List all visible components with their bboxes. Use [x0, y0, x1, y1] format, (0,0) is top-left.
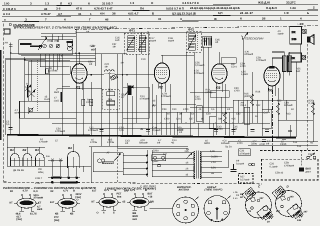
junction dot plate wire c [126, 74, 128, 76]
svg-text:2Ж: 2Ж [291, 57, 295, 60]
coil B2 stub [26, 147, 28, 153]
header rule line 2 [2, 9, 318, 12]
svg-text:ФТ1: ФТ1 [129, 29, 135, 33]
svg-text:дист: дист [306, 171, 312, 174]
svg-text:А 3 4: А 3 4 [3, 12, 10, 16]
coil B1 [11, 154, 20, 166]
svg-text:4700: 4700 [217, 128, 223, 131]
vertical wire x152 [151, 84, 153, 135]
tube2 plate wire y55 [161, 54, 194, 56]
vertical wire x24.8 [24, 57, 26, 118]
wire stubs above tuner [41, 33, 76, 35]
svg-text:В3: В3 [35, 148, 39, 152]
svg-text:4Ф: 4Ф [121, 62, 124, 65]
svg-text:СЗ0Ф: СЗ0Ф [280, 143, 287, 146]
svg-text:65: 65 [123, 200, 126, 203]
svg-text:4Л: 4Л [186, 162, 189, 165]
trimmer cap T2 [49, 44, 52, 47]
vertical wire x91 [90, 82, 92, 135]
svg-text:4б: 4б [291, 108, 294, 111]
svg-text:0,016 0,7 Н П: 0,016 0,7 Н П [166, 6, 184, 10]
svg-text:4700мкФ: 4700мкФ [88, 129, 98, 132]
svg-text:С19: С19 [141, 58, 146, 61]
capacitor C2 left [9, 128, 13, 130]
junction dots y123 rail [160, 122, 244, 124]
transformer area labels [153, 142, 314, 182]
svg-text:В: В [115, 189, 117, 192]
svg-text:З 4 б 6.7 б 8: З 4 б 6.7 б 8 [182, 1, 199, 5]
capacitor C44 box [209, 117, 216, 129]
vertical wire x57 [56, 54, 58, 70]
switch contact x marks [51, 159, 62, 162]
svg-text:Тр: Тр [186, 148, 189, 151]
svg-text:(430Ω): (430Ω) [244, 95, 252, 98]
loudspeaker symbol [307, 34, 314, 45]
vertical wire x109 [108, 72, 110, 146]
svg-text:6х8: 6х8 [133, 218, 138, 221]
vertical wire x40 [39, 54, 41, 67]
grid resistor dashed box [102, 89, 119, 109]
IF transformer FT1 windings [127, 35, 147, 52]
power switch VKL [307, 153, 316, 159]
svg-text:4 76 47: 4 76 47 [41, 12, 51, 16]
wire rail y88.5 [57, 88, 102, 90]
svg-text:4б: 4б [186, 174, 189, 177]
svg-text:4,7V: 4,7V [63, 190, 69, 193]
svg-text:О: О [151, 1, 154, 5]
svg-text:пФ: пФ [203, 40, 206, 43]
IF transformer FT2 box [187, 32, 202, 53]
svg-text:4: 4 [64, 18, 66, 22]
tube1 pin wire y86 [62, 85, 70, 87]
svg-text:МкФ: МкФ [54, 91, 59, 94]
svg-text:2ЛВ: 2ЛВ [292, 38, 297, 41]
svg-text:Лб: Лб [267, 89, 273, 93]
svg-text:297: 297 [304, 211, 309, 214]
svg-text:24 .43. 27: 24 .43. 27 [240, 11, 253, 15]
svg-text:ЗВ: ЗВ [140, 128, 143, 131]
svg-text:1 Ю: 1 Ю [4, 2, 9, 6]
tube socket diagram 2 [55, 194, 80, 211]
vertical wire x283 [282, 72, 284, 100]
svg-text:Ж: Ж [213, 17, 217, 21]
speaker connector hatched block lower [302, 55, 306, 60]
junction dots on bus [10, 134, 279, 138]
svg-text:4б: 4б [255, 115, 258, 118]
svg-text:47 б: 47 б [76, 7, 82, 11]
coil B3 stub [39, 147, 41, 153]
socket1 labels [10, 190, 44, 222]
chassis D inner parts [281, 196, 298, 210]
electrolytic capacitor dark bar [128, 86, 132, 95]
svg-text:4,7б: 4,7б [90, 45, 95, 48]
power transformer primary winding [194, 151, 195, 178]
rectifier capacitor [231, 164, 237, 172]
wire below-bus rail y141 right [228, 140, 318, 143]
svg-text:4бГ: 4бГ [90, 48, 96, 51]
vertical lead x213 [212, 123, 214, 136]
svg-text:277: 277 [276, 210, 281, 213]
tube socket diagram 1 [14, 194, 39, 211]
vertical wire x5.5 [5, 58, 7, 135]
chassis view C outline [246, 192, 272, 218]
wire rail y55.7 [21, 55, 95, 57]
vertical wire x132 [131, 96, 133, 135]
svg-text:61,7б: 61,7б [30, 212, 37, 215]
svg-text:К2: К2 [51, 190, 55, 193]
svg-text:4Ф: 4Ф [157, 142, 160, 145]
svg-text:4б: 4б [201, 118, 204, 121]
svg-text:1: 1 [90, 12, 92, 16]
svg-text:Др: Др [153, 104, 157, 107]
socket4 labels [123, 189, 154, 221]
svg-text:П4: П4 [140, 6, 144, 10]
svg-text:2Л: 2Л [186, 167, 189, 170]
svg-text:4,01 4,7: 4,01 4,7 [128, 12, 139, 16]
svg-text:R2З: R2З [286, 113, 291, 116]
svg-text:С47: С47 [264, 112, 269, 115]
svg-text:6кв: 6кв [117, 195, 122, 198]
svg-text:КТ: КТ [38, 202, 42, 205]
svg-text:Л3: Л3 [215, 86, 220, 90]
vertical lead x229 [228, 112, 230, 136]
svg-text:4,КВΩ: 4,КВΩ [241, 73, 248, 76]
UKV tuner box [19, 40, 73, 55]
vertical lead x257 [256, 100, 258, 123]
wire rail y118 [20, 117, 76, 119]
svg-text:Ь: Ь [307, 11, 309, 15]
svg-text:600мкФ: 600мкФ [245, 53, 254, 56]
svg-text:240: 240 [290, 196, 295, 199]
coil row connecting wires [7, 147, 91, 183]
tube socket diagram 4 [127, 193, 152, 210]
tube L3 envelope [212, 64, 227, 84]
svg-text:2б: 2б [262, 17, 266, 21]
svg-text:4700: 4700 [164, 118, 170, 121]
vertical wire x268 [267, 88, 269, 112]
svg-text:Пр 2А: Пр 2А [225, 146, 232, 149]
svg-text:Л2: Л2 [158, 86, 163, 90]
resistor R4 [90, 99, 93, 106]
svg-text:Л1: Л1 [75, 85, 80, 89]
speaker connector hatched block upper [302, 29, 307, 34]
svg-text:4,7: 4,7 [58, 12, 62, 16]
svg-text:340: 340 [233, 128, 238, 131]
svg-text:11кΩ: 11кΩ [44, 98, 50, 101]
svg-text:б: б [113, 211, 115, 214]
wire rail y107.5 [190, 107, 233, 109]
svg-text:(4б): (4б) [47, 40, 51, 43]
svg-text:4700: 4700 [240, 65, 246, 68]
svg-text:СЗ7: СЗ7 [189, 118, 194, 121]
tube L1 electrodes [74, 53, 86, 90]
svg-text:НАЦ: НАЦ [38, 171, 43, 174]
switch arrow AT [114, 153, 121, 162]
svg-text:4Ф: 4Ф [105, 65, 108, 68]
power rail y145.5 [248, 145, 318, 147]
svg-text:О: О [77, 199, 79, 202]
svg-text:2Ф: 2Ф [236, 194, 239, 197]
resistor R1 [45, 69, 48, 74]
vertical wire x136.6 [136, 54, 138, 123]
variable capacitor C1v arrows [25, 85, 36, 98]
svg-text:4б: 4б [105, 17, 109, 21]
svg-text:ВЯ: ВЯ [150, 200, 154, 203]
trimmer tick 1 [51, 40, 53, 41]
svg-text:617: 617 [92, 190, 97, 193]
svg-text:4,7V: 4,7V [130, 189, 136, 192]
power transformer core [197, 150, 199, 178]
arrow across electrolytic [125, 86, 134, 96]
svg-text:С: С [258, 185, 261, 189]
oscillator coil core [105, 72, 115, 74]
svg-text:С51: С51 [308, 153, 313, 156]
capacitor C47 box [262, 109, 271, 128]
svg-text:0,1мкФ: 0,1мкФ [270, 165, 278, 168]
coil middle taps [15, 157, 74, 168]
mains switch black block [299, 167, 304, 171]
svg-text:4 96 Г: 4 96 Г [35, 182, 43, 185]
svg-text:СЗ2: СЗ2 [236, 113, 241, 116]
resistor box R22 [244, 107, 250, 124]
svg-text:4,7V: 4,7V [23, 190, 29, 193]
vertical wire x148 [147, 32, 149, 135]
chassis C pin labels [240, 193, 270, 224]
coil B1 stub [14, 147, 16, 153]
svg-text:297: 297 [260, 197, 265, 200]
svg-text:мкФ: мкФ [15, 111, 20, 114]
volume potentiometer circles [98, 159, 105, 163]
svg-text:4700: 4700 [183, 108, 189, 111]
svg-text:мкФ: мкФ [37, 208, 43, 211]
svg-text:СЗ0: СЗ0 [206, 113, 211, 116]
capacitor C30 on rail [262, 140, 266, 142]
antenna connector circle [173, 197, 199, 223]
svg-text:Збк: Збк [108, 98, 113, 101]
svg-text:4Ф: 4Ф [113, 45, 116, 48]
svg-text:4зв: 4зв [46, 155, 50, 158]
vertical lead x198 [197, 123, 199, 136]
svg-text:ЗЗ0м: ЗЗ0м [251, 142, 257, 145]
capacitor C46 on bus [251, 130, 255, 132]
chassis D hatched lug top-left [275, 187, 285, 196]
svg-text:0,01: 0,01 [176, 118, 181, 121]
vertical wire x28 [27, 62, 29, 102]
svg-text:2: 2 [313, 6, 315, 10]
potentiometer hatched track [102, 162, 113, 164]
tube L1 envelope [72, 64, 87, 84]
chassis C hatched lug top-left [245, 189, 255, 198]
vertical wire x238 [237, 100, 239, 123]
schematic left dashed border [3, 24, 5, 183]
small dashed box R27 [239, 174, 254, 184]
vertical wire x313 [312, 100, 314, 142]
svg-text:ВАР: ВАР [124, 190, 130, 193]
capacitor C43 on bus [214, 130, 218, 132]
wires volume block to transformer column [93, 146, 152, 183]
svg-text:АБ: АБ [310, 142, 314, 145]
svg-text:З1: З1 [78, 12, 82, 16]
svg-text:4Ф: 4Ф [125, 142, 128, 145]
svg-text:АНТЕНИ: АНТЕНИ [178, 188, 190, 191]
svg-text:Зб: Зб [112, 12, 116, 16]
vertical wire x45.9 [45, 54, 47, 74]
dial cord row 2 [48, 181, 80, 184]
wire rail y104.5 [161, 104, 196, 106]
vertical wire x186 [185, 52, 187, 112]
IF transformer FT1 box [124, 33, 149, 54]
chassis C inner parts [251, 197, 268, 211]
svg-text:4700мкФ: 4700мкФ [194, 72, 204, 75]
svg-text:СЗ9: СЗ9 [162, 108, 167, 111]
svg-text:ДВ СВ КВ: ДВ СВ КВ [13, 169, 24, 172]
svg-text:0,1мкФ: 0,1мкФ [236, 162, 244, 165]
svg-text:340мкФ: 340мкФ [221, 142, 230, 145]
svg-text:б: б [240, 17, 242, 21]
telescopic antenna [242, 32, 248, 40]
wire rail y60 [25, 59, 70, 61]
svg-text:АН: АН [5, 42, 9, 45]
svg-text:В2: В2 [23, 148, 27, 152]
vertical lead x156 [155, 95, 157, 135]
svg-text:4Ф: 4Ф [266, 143, 269, 146]
header rule line 4 [2, 21, 318, 22]
oscillator coil L-osc [105, 70, 115, 72]
capacitor C36 on bus [100, 130, 104, 132]
svg-text:0,5мкФ: 0,5мкФ [153, 129, 161, 132]
svg-text:С 3 Б И 6: С 3 Б И 6 [3, 7, 16, 11]
header revision-table text row D [4, 17, 302, 22]
svg-text:+ 3в: + 3в [233, 191, 238, 194]
vertical wire x101 [100, 54, 102, 146]
svg-text:4700м: 4700м [90, 141, 97, 144]
tube L2 electrodes [156, 55, 168, 92]
svg-text:D: D [287, 185, 290, 189]
vertical wire x203 [202, 47, 204, 123]
plate wire tube1 to coil [87, 74, 104, 76]
power connector circles [249, 163, 255, 166]
svg-text:4пФ: 4пФ [115, 39, 120, 42]
vertical lead x166 [165, 112, 167, 135]
wire rail y100 right [233, 99, 296, 101]
transformer winding labels [185, 150, 190, 177]
vertical wire x225 [224, 84, 226, 135]
chassis D hatched lug bottom-right [293, 210, 303, 219]
trimmer inside [29, 108, 33, 112]
svg-text:1: 1 [280, 17, 282, 21]
capacitor C45 on bus [232, 130, 236, 132]
svg-text:R1В: R1В [256, 91, 261, 94]
svg-text:Г: Г [89, 17, 91, 21]
svg-text:R22: R22 [277, 100, 282, 103]
vertical lead x190 [189, 112, 191, 136]
svg-text:4: 4 [300, 17, 302, 21]
svg-text:220V: 220V [153, 150, 159, 153]
svg-text:В1: В1 [10, 148, 14, 152]
resistor zigzag R24 [276, 103, 279, 115]
svg-text:4Ф: 4Ф [227, 108, 230, 111]
svg-text:1000к: 1000к [86, 101, 93, 104]
svg-text:600мкФ: 600мкФ [284, 104, 293, 107]
svg-text:ЦЗ.ЦЦ.23.ЗЦ.6.(Б: ЦЗ.ЦЦ.23.ЗЦ.6.(Б [172, 11, 196, 15]
trimmer cap T1 [43, 44, 46, 47]
vertical wire x194 [193, 52, 195, 123]
svg-text:ЗВ: ЗВ [179, 113, 182, 116]
svg-text:КВ: КВ [55, 212, 59, 215]
svg-text:4мкФ: 4мкФ [168, 40, 174, 43]
svg-text:Б: Б [152, 12, 154, 16]
header revision-table text row C [3, 11, 309, 16]
svg-text:4 Н: 4 Н [100, 12, 105, 16]
svg-text:24.ЦЗ.ЦЦ.З.ЦЦ.ЦЗ.43.44.ЦЗ.43.Ц: 24.ЦЗ.ЦЦ.З.ЦЦ.ЦЗ.43.44.ЦЗ.43.ЦЗ.Б [190, 6, 240, 10]
svg-text:3: 3 [30, 2, 32, 6]
svg-text:270мкФ: 270мкФ [34, 196, 44, 199]
wire rail y146 [88, 145, 188, 148]
svg-text:+СЗ0: +СЗ0 [259, 143, 266, 146]
svg-text:0,01: 0,01 [119, 129, 124, 132]
svg-text:~ 2Ф: ~ 2Ф [297, 22, 304, 26]
coil B2 [23, 154, 32, 167]
wire rail y147 left of coils [7, 146, 45, 148]
svg-text:+Сб: +Сб [231, 118, 236, 121]
svg-text:У- 20С РЕЖ.]: У- 20С РЕЖ.] [140, 185, 156, 188]
resistor zigzag R25 [311, 103, 314, 115]
svg-text:4б: 4б [153, 100, 156, 103]
vertical wire x161 [160, 84, 162, 135]
svg-text:1 Ф: 1 Ф [284, 11, 289, 15]
svg-text:4В: 4В [211, 172, 214, 175]
power transformer secondary winding [200, 151, 201, 178]
vertical wire x247 [246, 100, 248, 136]
svg-text:С40: С40 [172, 108, 177, 111]
svg-text:4х: 4х [26, 83, 29, 86]
socket4 to connector wire [150, 208, 173, 210]
svg-text:Ж.Б.Д.Ю: Ж.Б.Д.Ю [257, 1, 270, 5]
vertical wire x49.6 [49, 54, 51, 101]
svg-text:4 3: 4 3 [68, 1, 72, 5]
wire rail y58 left [6, 57, 96, 59]
vertical lead x181 [180, 112, 182, 123]
vertical wire x59.5 [59, 54, 61, 62]
svg-text:(470к): (470к) [206, 91, 213, 94]
svg-text:4700мкФ: 4700мкФ [161, 95, 171, 98]
vertical wire x243 telescopic [242, 40, 244, 123]
header rule line 3 [2, 15, 318, 16]
tuning gang symbol [67, 41, 73, 51]
below-bus label row [39, 138, 298, 146]
vertical lead x221 [220, 97, 222, 123]
grid wire y66.5 [40, 66, 70, 68]
vertical lead x174 [173, 123, 175, 135]
header rule line 1 [2, 5, 318, 6]
svg-text:транс: транс [152, 160, 159, 163]
svg-text:24б: 24б [297, 219, 302, 222]
svg-text:29: 29 [267, 221, 270, 224]
svg-text:580мкФ: 580мкФ [139, 141, 148, 144]
svg-text:4Ф: 4Ф [86, 31, 89, 34]
svg-text:2х300: 2х300 [211, 156, 218, 159]
antenna connector pins [177, 197, 199, 221]
svg-text:4: 4 [103, 211, 105, 214]
svg-text:43: 43 [44, 7, 48, 11]
vertical wire x95.5 [95, 48, 97, 66]
speaker terminal box lower [289, 53, 302, 62]
svg-text:3 96 Г: 3 96 Г [35, 177, 43, 180]
vertical wire x170 [169, 84, 171, 135]
schematic bottom dashed border left part [4, 182, 262, 184]
svg-text:4б: 4б [199, 108, 202, 111]
tube L4 top-cap bar [269, 67, 275, 68]
